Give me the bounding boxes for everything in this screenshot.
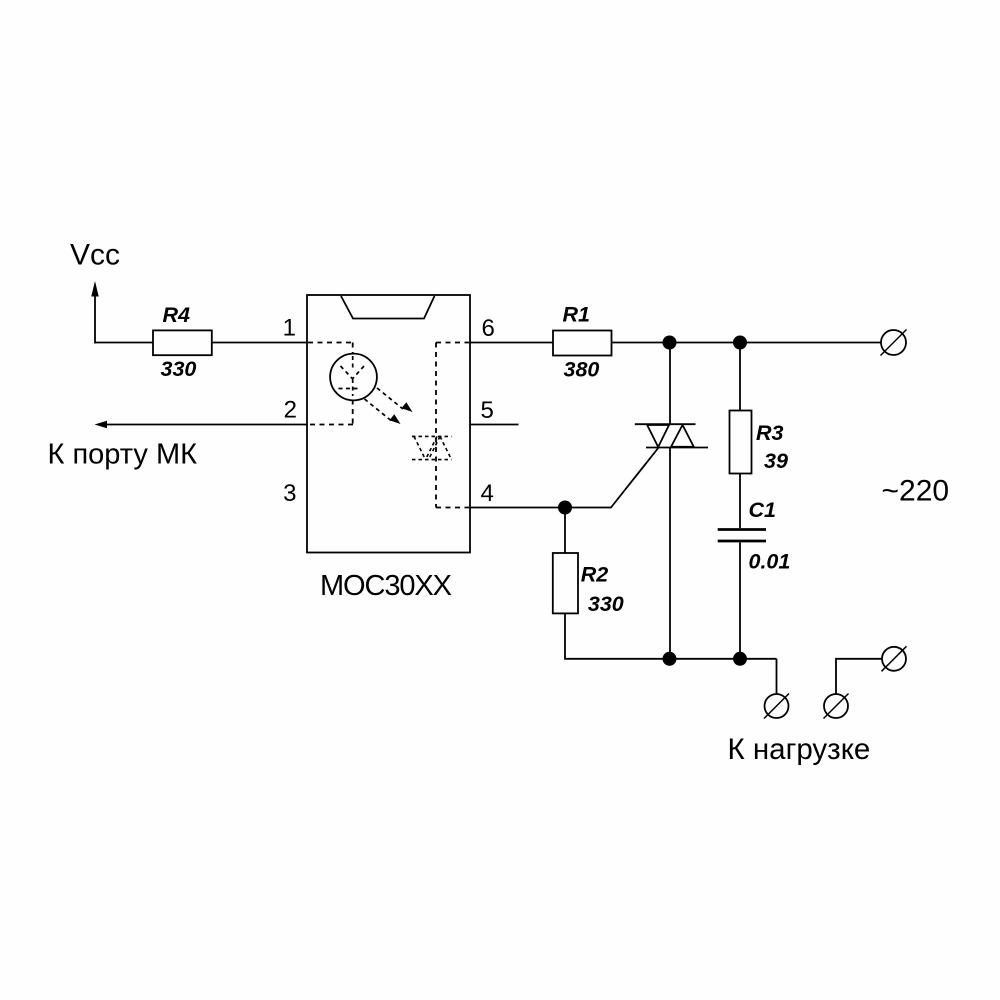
svg-text:39: 39 xyxy=(764,449,788,473)
wire mains right terminal xyxy=(836,659,882,695)
node junction bottom triac xyxy=(663,652,677,666)
node Vcc arrow xyxy=(91,281,98,344)
node junction gate R2 xyxy=(558,501,572,515)
svg-text:0.01: 0.01 xyxy=(749,550,791,574)
svg-text:MOC30XX: MOC30XX xyxy=(320,570,452,602)
wire R1 to terminal xyxy=(612,342,882,344)
resistor R3 xyxy=(730,411,752,474)
wire pin 6 to R1 xyxy=(470,342,553,344)
photo-triac dashed symbol xyxy=(412,436,452,459)
svg-text:330: 330 xyxy=(161,357,197,381)
triac VS1 xyxy=(635,424,708,447)
svg-text:R1: R1 xyxy=(563,303,590,327)
wire R2 bottom xyxy=(565,613,777,658)
svg-text:330: 330 xyxy=(588,592,624,616)
terminal load right xyxy=(824,694,849,719)
svg-text:R4: R4 xyxy=(163,303,191,327)
wire triac top xyxy=(669,343,671,425)
wire Vcc to R4 xyxy=(95,342,153,344)
svg-text:К порту МК: К порту МК xyxy=(48,439,198,471)
wire C1 bottom xyxy=(739,543,741,659)
terminal load left xyxy=(764,694,789,719)
op-to-coupler U1 MOC30XX box xyxy=(307,295,470,553)
notch xyxy=(341,296,435,319)
wire pin 2 to MCU port with arrow xyxy=(95,421,308,429)
svg-text:380: 380 xyxy=(564,358,600,382)
terminal mains top xyxy=(882,646,907,671)
terminal top right xyxy=(881,330,907,356)
wire triac bottom xyxy=(669,448,671,659)
light arrow 1 xyxy=(377,388,413,412)
wire pin 5 stub xyxy=(470,424,519,426)
svg-text:6: 6 xyxy=(482,315,495,342)
LED circle D1 xyxy=(330,354,377,401)
svg-text:К нагрузке: К нагрузке xyxy=(728,733,871,766)
svg-text:4: 4 xyxy=(481,480,494,507)
resistor R1 xyxy=(553,331,612,356)
wire R4 to pin 1 xyxy=(212,342,308,344)
wire R2 top xyxy=(564,508,566,554)
node junction bottom C1 xyxy=(733,652,747,666)
resistor R4 xyxy=(153,330,212,355)
svg-text:C1: C1 xyxy=(749,498,776,522)
capacitor C1 xyxy=(718,530,766,542)
svg-text:2: 2 xyxy=(284,397,297,424)
wire triac gate xyxy=(470,448,658,508)
svg-text:R3: R3 xyxy=(756,421,784,445)
svg-text:~220: ~220 xyxy=(882,475,950,508)
svg-text:5: 5 xyxy=(481,397,494,424)
light arrow 2 xyxy=(365,399,401,424)
svg-text:Vcc: Vcc xyxy=(70,239,120,272)
LED dashed triangle xyxy=(339,356,365,396)
svg-text:1: 1 xyxy=(283,315,296,342)
svg-text:R2: R2 xyxy=(581,563,609,587)
resistor R2 xyxy=(553,553,578,613)
LED internal dashed box left xyxy=(308,343,353,425)
svg-text:3: 3 xyxy=(283,480,296,507)
node junction top triac xyxy=(663,336,677,350)
photo-triac dashed box right xyxy=(436,343,469,508)
wire load branch down xyxy=(776,659,778,695)
wire R3 to C1 xyxy=(739,474,741,529)
wire R3 top xyxy=(739,343,741,411)
node junction top R3 xyxy=(733,336,747,350)
